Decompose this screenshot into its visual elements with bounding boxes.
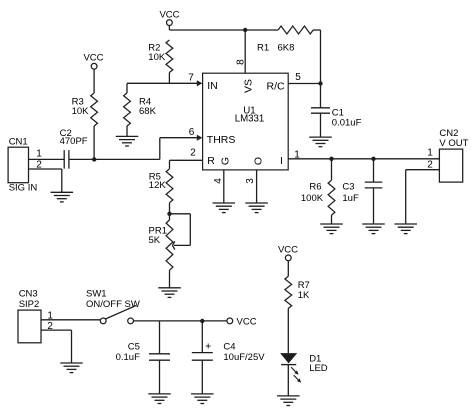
CN2 pin 1 number — [427, 147, 433, 158]
wire THRS horizontal — [160, 137, 198, 139]
wire C4 to ground — [201, 360, 203, 394]
svg-text:2: 2 — [427, 159, 433, 170]
CN3 pin 1 number — [47, 310, 53, 321]
wire pin2 down to R5 — [169, 160, 171, 169]
power VCC symbol (R7) — [278, 244, 298, 276]
label C3 value — [342, 181, 359, 204]
wire pin 7 horizontal — [127, 82, 198, 84]
wire R6 top lead — [331, 159, 333, 180]
resistor R3 — [91, 93, 98, 126]
LED D1 — [280, 353, 301, 383]
ground D1 — [277, 396, 300, 406]
capacitor C3 — [365, 182, 383, 188]
svg-text:R/C: R/C — [267, 81, 286, 93]
svg-text:1: 1 — [36, 149, 42, 160]
svg-text:100K: 100K — [301, 193, 324, 204]
label PR1 value — [149, 226, 167, 247]
node junction dot pin5/C1 — [318, 81, 322, 85]
node junction dot pin8 rail — [243, 28, 247, 32]
pin number 2 — [190, 148, 196, 159]
power VCC symbol (R3) — [83, 53, 103, 93]
svg-text:0.01uF: 0.01uF — [332, 117, 362, 128]
capacitor C4 — [192, 353, 213, 361]
svg-text:ON/OFF SW: ON/OFF SW — [86, 299, 140, 310]
wire pin 1 to CN2 — [288, 158, 439, 160]
pin number 1 — [294, 149, 300, 160]
wire R3 bottom to node — [93, 126, 95, 159]
ground C5 — [148, 394, 171, 404]
U1 pin label R/C — [267, 81, 286, 93]
wire PR1 to ground — [169, 270, 171, 288]
svg-text:I: I — [280, 155, 283, 167]
svg-text:V OUT: V OUT — [439, 138, 468, 149]
ground pin 3 — [245, 203, 268, 213]
wire CN1 pin1 to C2 — [29, 158, 65, 160]
pin number 7 — [188, 72, 194, 83]
resistor R4 — [124, 93, 131, 126]
node junction dot C3 — [371, 157, 375, 161]
svg-text:G: G — [219, 157, 231, 165]
ground CN2 pin2 — [394, 224, 417, 234]
ground C3 — [362, 224, 385, 234]
resistor R5 — [166, 169, 173, 203]
svg-text:10K: 10K — [148, 52, 166, 63]
wire R1 right to corner — [313, 30, 320, 84]
svg-text:VCC: VCC — [278, 244, 298, 255]
connector CN2 — [439, 128, 468, 182]
wire pin 5 to R1/C1 node — [288, 83, 320, 85]
pin number 4 — [213, 178, 224, 184]
node junction dot C2/R3 — [92, 157, 96, 161]
wire top rail VCC to R1 — [169, 29, 278, 31]
ground C1 — [309, 137, 332, 147]
svg-text:3: 3 — [245, 178, 256, 184]
CN3 pin 2 number — [47, 321, 53, 332]
wire C2 to node — [69, 158, 94, 160]
svg-text:C3: C3 — [342, 181, 354, 192]
wire pin 8 vertical — [244, 30, 246, 73]
arrow into pin 7 — [197, 80, 203, 86]
U1 pin label THRS — [207, 134, 236, 146]
svg-text:O: O — [253, 157, 265, 165]
connector CN1 — [8, 137, 37, 194]
ground CN3 pin2 — [60, 363, 83, 373]
wire switch to VCC — [134, 320, 227, 322]
wire C1 to ground — [320, 113, 322, 137]
label D1 value — [309, 353, 328, 374]
wire pin 2 horizontal — [170, 159, 203, 161]
wire C5 to ground — [159, 360, 161, 394]
U1 pin label I — [280, 155, 283, 167]
CN1 pin 2 number — [36, 160, 42, 171]
U1 pin label VS — [242, 79, 254, 93]
ground PR1 — [158, 288, 181, 298]
ground C4 — [191, 394, 214, 404]
capacitor C1 — [311, 108, 330, 113]
connector CN3 — [18, 289, 41, 343]
U1 pin label O — [253, 157, 265, 165]
svg-text:LED: LED — [309, 363, 328, 374]
wire CN1 pin2 to ground — [29, 169, 62, 192]
svg-text:8: 8 — [235, 59, 246, 65]
svg-text:470PF: 470PF — [60, 136, 88, 147]
svg-text:4: 4 — [213, 178, 224, 184]
capacitor C2 — [64, 150, 69, 169]
wire node to C1 — [320, 84, 322, 108]
wire LED to ground — [287, 365, 289, 396]
ground pin 4 — [213, 203, 236, 213]
pin number 6 — [189, 127, 195, 138]
svg-text:R: R — [207, 155, 215, 167]
svg-text:7: 7 — [188, 72, 194, 83]
switch SW1 — [86, 289, 140, 324]
svg-text:VCC: VCC — [159, 9, 179, 20]
power VCC terminal (supply in) — [227, 316, 257, 327]
svg-text:VCC: VCC — [83, 53, 103, 64]
wire R4 to ground — [126, 126, 128, 136]
resistor R6 — [328, 180, 335, 215]
wire C4 tap — [201, 321, 203, 353]
U1 pin label R — [207, 155, 215, 167]
resistor R7 — [285, 276, 292, 308]
svg-text:0.1uF: 0.1uF — [116, 352, 140, 363]
pin number 8 — [235, 59, 246, 65]
label R4 value — [139, 97, 157, 118]
op-amp U1 LM331 body — [203, 73, 289, 170]
svg-text:6K8: 6K8 — [278, 43, 295, 54]
svg-text:R6: R6 — [309, 181, 321, 192]
wire pin 3 to ground — [256, 170, 258, 203]
power VCC symbol (R2/R1 rail) — [159, 9, 179, 30]
ground R4 — [116, 136, 139, 146]
svg-text:1: 1 — [294, 149, 300, 160]
svg-text:C5: C5 — [128, 341, 140, 352]
label R1 value — [257, 43, 294, 54]
ground R6 — [320, 224, 343, 234]
svg-text:5: 5 — [295, 72, 301, 83]
U1 pin label IN — [207, 80, 218, 92]
svg-text:68K: 68K — [139, 106, 157, 117]
wire pin 4 to ground — [223, 170, 225, 203]
wire THRS branch vertical — [159, 138, 161, 160]
wire C3 top lead — [373, 159, 375, 182]
svg-text:2: 2 — [190, 148, 196, 159]
svg-text:SIP2: SIP2 — [19, 299, 40, 310]
wire CN3 pin2 to ground — [41, 330, 72, 363]
potentiometer PR1 — [166, 214, 190, 270]
wire R2 bottom to pin7 net — [168, 73, 170, 84]
label C2 value — [60, 128, 88, 147]
svg-text:LM331: LM331 — [235, 114, 265, 125]
svg-text:IN: IN — [207, 80, 218, 92]
svg-text:1: 1 — [427, 147, 433, 158]
svg-text:5K: 5K — [149, 235, 161, 246]
label R6 value — [301, 181, 324, 204]
wire R5 to PR1 node — [169, 203, 171, 214]
label R3 value — [72, 97, 90, 118]
svg-text:CN1: CN1 — [9, 137, 28, 148]
svg-text:1K: 1K — [298, 290, 310, 301]
svg-text:10K: 10K — [72, 106, 90, 117]
CN2 pin 2 number — [427, 159, 433, 170]
node junction dot R5/PR1 — [167, 212, 171, 216]
capacitor C4 polarity + — [206, 344, 211, 349]
pin number 5 — [295, 72, 301, 83]
label C5 value — [116, 341, 140, 363]
resistor R1 — [278, 26, 313, 34]
wire R6 to ground — [331, 215, 333, 224]
svg-text:THRS: THRS — [207, 134, 236, 146]
node junction dot C4 — [200, 319, 204, 323]
label C1 value — [332, 107, 362, 128]
U1 pin label G — [219, 157, 231, 165]
wire node to THRS branch — [94, 158, 160, 160]
svg-text:VS: VS — [242, 79, 254, 93]
svg-text:10uF/25V: 10uF/25V — [223, 352, 265, 363]
svg-text:R1: R1 — [257, 43, 269, 54]
svg-text:C4: C4 — [223, 341, 235, 352]
svg-text:6: 6 — [189, 127, 195, 138]
svg-text:VCC: VCC — [237, 316, 257, 327]
CN1 pin 1 number — [36, 149, 42, 160]
capacitor C5 — [149, 354, 170, 360]
wire CN3 pin1 to switch — [41, 319, 100, 321]
pin number 3 — [245, 178, 256, 184]
label R7 value — [298, 280, 310, 301]
label C4 value — [223, 341, 265, 363]
svg-text:SIG IN: SIG IN — [9, 183, 38, 194]
wire CN2 pin2 to ground — [406, 170, 440, 224]
wire C3 to ground — [373, 188, 375, 224]
wire C5 tap — [159, 321, 161, 354]
label R2 value — [148, 42, 166, 63]
resistor R2 — [166, 40, 173, 73]
ground CN1 — [51, 192, 74, 202]
arrow into pin 6 — [197, 135, 203, 141]
wire R4 top lead — [126, 83, 128, 93]
node junction dot R6 — [329, 157, 333, 161]
wire R7 to LED — [287, 308, 289, 353]
svg-text:1uF: 1uF — [342, 193, 359, 204]
label R5 value — [149, 172, 167, 191]
svg-text:12K: 12K — [149, 180, 167, 191]
